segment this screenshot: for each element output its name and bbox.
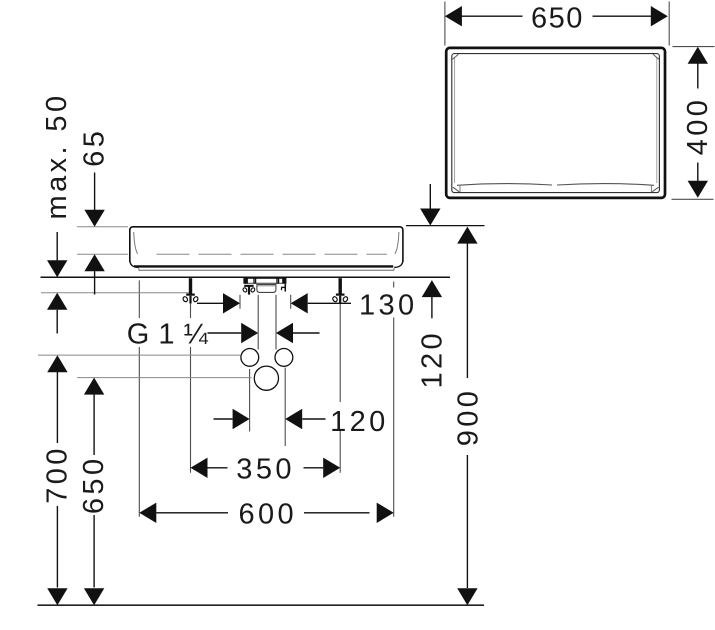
svg-text:65: 65	[79, 128, 111, 167]
svg-text:900: 900	[453, 388, 485, 447]
svg-text:600: 600	[239, 499, 298, 531]
svg-text:700: 700	[41, 445, 73, 504]
svg-text:350: 350	[236, 453, 295, 485]
svg-text:650: 650	[531, 3, 584, 35]
svg-text:130: 130	[359, 289, 418, 321]
svg-text:max. 50: max. 50	[41, 93, 73, 220]
svg-text:120: 120	[330, 406, 389, 438]
svg-text:400: 400	[682, 97, 714, 156]
svg-text:G 1 ¼: G 1 ¼	[127, 319, 209, 351]
svg-text:120: 120	[416, 330, 448, 389]
svg-text:650: 650	[78, 456, 110, 515]
